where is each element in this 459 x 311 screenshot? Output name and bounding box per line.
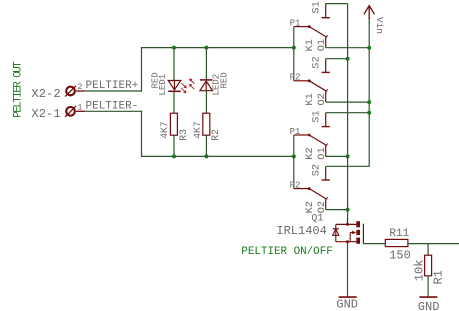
- relay K1 contact 2 stationary contact O2: [325, 92, 327, 103]
- wire O2 K1 to Vin bus: [326, 101, 370, 103]
- junction node PELTIER+ at LED1: [172, 46, 176, 50]
- LED LED2 (diode pointing up): [200, 80, 213, 91]
- svg-text:R2: R2: [210, 129, 221, 141]
- junction node PELTIER- at relay bus: [292, 154, 296, 158]
- svg-text:O2: O2: [316, 201, 328, 213]
- wire PELTIER+ top rail: [141, 47, 294, 49]
- LED LED1 (diode pointing down): [168, 81, 181, 92]
- svg-text:IRL1404: IRL1404: [276, 224, 326, 238]
- relay K1 contact 1 stationary contact S1: [325, 4, 327, 18]
- wire PELTIER+ corner up: [141, 48, 143, 92]
- wire S1 K1 to middle bus: [326, 3, 348, 5]
- svg-text:S2: S2: [311, 56, 323, 68]
- svg-text:2: 2: [77, 82, 82, 92]
- relay K2 contact 1 stationary contact O1: [325, 146, 327, 157]
- wire LED1 cathode to R3: [173, 91, 175, 113]
- LED1 light arrows: [181, 83, 187, 93]
- wire R1 top branch: [427, 244, 429, 256]
- transistor Q1 channel bars: [356, 221, 360, 244]
- wire PELTIER- pole bus (P1 K2 to P2 K2): [293, 135, 295, 189]
- svg-text:P2: P2: [290, 73, 301, 83]
- wire R3 to PELTIER- rail: [173, 135, 175, 156]
- svg-text:GND: GND: [336, 298, 358, 311]
- junction node PELTIER- at R2: [204, 154, 208, 158]
- junction node Vin bus at O2 K1: [367, 100, 371, 104]
- svg-text:Q1: Q1: [311, 214, 323, 225]
- resistor R3 body: [170, 113, 177, 135]
- svg-text:RED: RED: [220, 72, 230, 88]
- svg-text:GND: GND: [418, 300, 440, 311]
- connector X2-2 pad: [65, 86, 85, 97]
- svg-text:R3: R3: [178, 129, 189, 141]
- wire S1 K2 to Vin bus: [326, 112, 370, 114]
- svg-text:PELTIER ON/OFF: PELTIER ON/OFF: [241, 246, 332, 258]
- wire R2 to PELTIER- rail: [205, 135, 207, 156]
- wire S2 K2 to Vin bus corner: [326, 165, 370, 168]
- wire LED2 anode to R2: [205, 91, 207, 114]
- relay K2 contact 1 blade: [309, 135, 326, 145]
- junction node PELTIER+ at LED2: [204, 46, 208, 50]
- resistor R2 body: [203, 113, 210, 135]
- transistor Q1 body arrow: [349, 233, 351, 242]
- wire R1 to GND: [427, 276, 429, 297]
- svg-text:O1: O1: [316, 147, 328, 159]
- relay K2 contact 2 pole pin P2: [294, 188, 309, 190]
- ground GND below Q1: [339, 296, 357, 298]
- wire PELTIER- from X2-1 to corner: [85, 110, 141, 112]
- svg-text:S2: S2: [311, 164, 323, 176]
- LED2 light arrows: [189, 78, 195, 89]
- junction node middle bus at S2 K1: [346, 57, 350, 61]
- ground GND below R1: [419, 296, 437, 298]
- svg-text:K2: K2: [304, 201, 316, 213]
- relay K1 contact 2 stationary contact S2: [325, 59, 327, 73]
- relay K2 contact 1 stationary contact S1: [325, 113, 327, 127]
- svg-text:10k: 10k: [412, 260, 426, 282]
- supply symbol Vin arrow: [364, 6, 375, 19]
- wire O1 K1 to Vin bus: [326, 47, 370, 49]
- relay K2 contact 1 pole pin P1: [294, 134, 309, 136]
- wire Vin bus: [368, 18, 370, 166]
- node Q1 source-diode junction: [346, 240, 349, 243]
- wire O1 K2 to middle bus: [326, 155, 348, 157]
- junction node Vin bus at S1 K2: [367, 111, 371, 115]
- svg-text:K2: K2: [304, 147, 316, 159]
- svg-text:K1: K1: [304, 39, 316, 51]
- relay K1 contact 1 blade: [309, 27, 326, 37]
- wire Q1 source to GND: [347, 242, 349, 297]
- wire middle bus (S1 K1 down to Q1 drain): [347, 4, 349, 220]
- relay K2 contact 2 blade: [309, 189, 326, 199]
- svg-text:PELTIER OUT: PELTIER OUT: [13, 61, 25, 118]
- relay K2 contact 2 stationary contact O2: [325, 199, 327, 209]
- svg-text:4K7: 4K7: [192, 121, 203, 139]
- junction node PELTIER- at R3: [172, 154, 176, 158]
- wire S2 K1 to middle bus: [326, 58, 348, 60]
- svg-text:1: 1: [77, 102, 82, 112]
- transistor Q1 top (drain) rail: [336, 223, 357, 225]
- svg-text:R11: R11: [389, 228, 409, 240]
- svg-text:4K7: 4K7: [159, 121, 170, 139]
- junction node PELTIER+ at relay bus: [292, 46, 296, 50]
- svg-text:O2: O2: [316, 93, 328, 105]
- relay K2 contact 2 stationary contact S2: [325, 166, 327, 180]
- wire R11 to right edge: [408, 243, 459, 245]
- transistor Q1 gate line: [362, 224, 364, 244]
- svg-text:Vin: Vin: [374, 17, 385, 34]
- wire PELTIER+ from X2-2 to corner: [85, 90, 141, 92]
- relay K1 contact 2 blade: [309, 81, 326, 91]
- wire Q1 gate to R11: [363, 243, 385, 245]
- svg-text:P1: P1: [290, 127, 301, 137]
- junction node Vin bus at O1 K1: [367, 46, 371, 50]
- svg-text:P1: P1: [290, 18, 301, 28]
- svg-text:RED: RED: [150, 72, 160, 88]
- svg-text:PELTIER+: PELTIER+: [86, 80, 139, 92]
- wire PELTIER- corner down: [141, 111, 143, 157]
- connector X2-1 pad: [65, 106, 85, 117]
- svg-text:S1: S1: [311, 110, 323, 122]
- svg-text:S1: S1: [311, 1, 323, 13]
- svg-text:X2-2: X2-2: [31, 87, 60, 101]
- junction node middle bus at O1 K2: [346, 154, 350, 158]
- resistor R11 body: [385, 239, 408, 246]
- wire LED1 anode: [173, 48, 175, 80]
- relay K1 contact 1 stationary contact O1: [325, 37, 327, 47]
- resistor R1 body: [425, 255, 432, 276]
- svg-text:P2: P2: [290, 180, 301, 190]
- wire LED2 cathode: [205, 48, 207, 80]
- svg-text:150: 150: [389, 249, 411, 263]
- wire PELTIER- bottom rail: [141, 155, 294, 157]
- relay K1 contact 2 pole pin P2: [294, 80, 309, 82]
- relay K1 contact 1 pole pin P1: [294, 26, 309, 28]
- svg-text:O1: O1: [316, 39, 328, 51]
- transistor Q1 bottom (source) rail: [336, 241, 357, 243]
- svg-text:K1: K1: [304, 93, 316, 105]
- wire PELTIER+ pole bus (P1 K1 to P2 K1): [293, 27, 295, 81]
- svg-text:R1: R1: [431, 270, 445, 284]
- junction node middle bus at O2 K2: [346, 208, 350, 212]
- svg-text:PELTIER-: PELTIER-: [86, 100, 139, 112]
- svg-text:X2-1: X2-1: [31, 107, 60, 121]
- node Q1 drain-diode junction: [346, 223, 349, 226]
- wire O2 K2 to middle bus: [326, 209, 348, 211]
- wire middle bus to Q1 drain pin: [347, 219, 349, 224]
- diode body diode of Q1: [333, 224, 339, 241]
